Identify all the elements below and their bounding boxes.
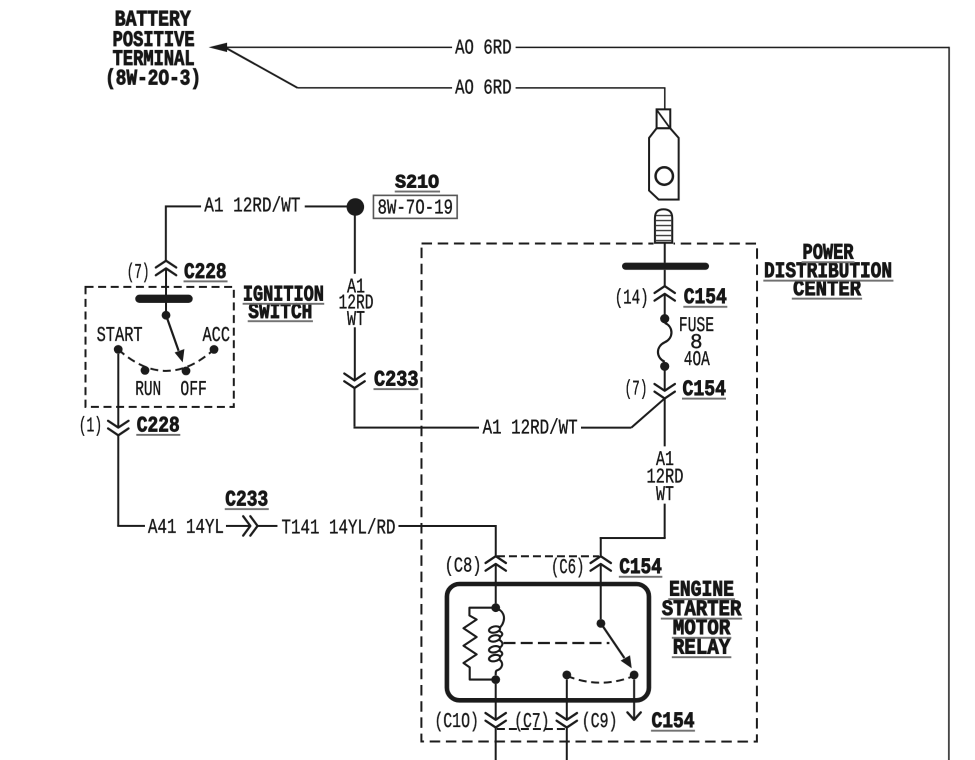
- wire from splice run to label: [353, 388, 479, 428]
- wire label A41 14YL: [148, 517, 224, 540]
- connector label C233: [373, 367, 418, 392]
- connector C154 dashed face (top): [497, 555, 599, 557]
- svg-text:(14): (14): [615, 287, 649, 310]
- connector C154 pin (C7): [557, 713, 577, 728]
- wire A1 below C154 pin 7: [664, 398, 666, 446]
- wire from ignition switch to splice S210: [166, 205, 201, 207]
- splice label S210: [395, 171, 440, 193]
- wire fuse to C154 pin 7: [664, 366, 666, 390]
- connector C233 (inline horizontal): [243, 516, 257, 535]
- connector C154 pin (14): [655, 286, 675, 301]
- wire C154 to fuse: [664, 294, 666, 315]
- connector C154 pin (7): [654, 384, 674, 399]
- svg-text:AO 6RD: AO 6RD: [455, 37, 512, 60]
- connector label C154: [682, 377, 726, 402]
- splice reference box 8W-70-19: [373, 195, 457, 220]
- svg-text:T141 14YL/RD: T141 14YL/RD: [281, 517, 395, 540]
- wire label A1 12RD/WT (middle): [483, 417, 578, 440]
- wire to relay C8: [398, 525, 495, 556]
- relay switch pivot node: [597, 619, 606, 628]
- svg-text:(C7): (C7): [514, 711, 550, 734]
- ignition switch wiper arm: [166, 315, 184, 362]
- svg-text:(7): (7): [127, 262, 150, 285]
- svg-text:(1): (1): [79, 415, 103, 438]
- wire down to C154 pin C6: [600, 504, 666, 557]
- wire corner down to C228 pin 7: [165, 205, 167, 260]
- connector C154 pin (C8): [486, 556, 506, 571]
- switch position dashed arc: [118, 349, 214, 371]
- PDC bus bar: [622, 263, 709, 270]
- svg-text:(C6): (C6): [551, 557, 585, 580]
- ignition switch contact bar: [135, 295, 193, 303]
- svg-text:AO 6RD: AO 6RD: [455, 78, 512, 101]
- arrow to battery positive terminal: [209, 43, 228, 52]
- pin label (1): [79, 415, 103, 438]
- connector label C154: [619, 555, 663, 580]
- pin label (C9): [582, 711, 618, 734]
- relay contact C9 node: [630, 671, 639, 680]
- wire from C233 to label T141: [258, 525, 278, 527]
- connector C228 pin (7): [156, 261, 176, 276]
- power distribution center label: [763, 240, 893, 302]
- coil top node: [491, 603, 500, 612]
- svg-text:RUN: RUN: [135, 379, 161, 402]
- connector label C228: [184, 260, 228, 285]
- fuse 8 element: [658, 314, 672, 371]
- wiper pivot node: [162, 311, 171, 320]
- resistor (parallel with coil): [464, 608, 492, 680]
- svg-text:WT: WT: [656, 484, 674, 507]
- wire label A0 6RD lower: [455, 78, 512, 101]
- pin label (C7): [514, 711, 550, 734]
- svg-text:(7): (7): [624, 379, 647, 402]
- connector label C154: [651, 709, 695, 734]
- wire label A1 12RD/WT (top): [204, 195, 300, 218]
- svg-text:(8W-2O-3): (8W-2O-3): [105, 66, 201, 91]
- fusible link wire boot: [654, 241, 674, 246]
- pin label (C6): [551, 557, 585, 580]
- label ACC: [203, 325, 231, 348]
- svg-text:A41 14YL: A41 14YL: [148, 517, 224, 540]
- coil actuates switch (dashed link): [504, 642, 610, 644]
- contact ACC: [210, 345, 219, 354]
- connector C154 pin (C6): [591, 556, 611, 571]
- wire bus bar to C154 pin 14: [664, 270, 666, 286]
- connector C228 pin (1): [108, 421, 128, 436]
- wire START contact down: [117, 354, 119, 428]
- engine starter motor relay label: [661, 578, 742, 661]
- wire C228 pin 1 down and right: [117, 435, 145, 526]
- pin label (14): [615, 287, 649, 310]
- splice S210: [347, 198, 365, 216]
- wire into switch bar: [165, 268, 167, 296]
- connector C154 pin (C10): [485, 713, 505, 728]
- label RUN: [135, 379, 161, 402]
- wire from boot into PDC: [664, 243, 666, 263]
- wire A0 6RD lower, to fusible link: [226, 48, 666, 109]
- wire coil bottom to C10: [495, 684, 497, 720]
- connector label C154: [683, 285, 727, 310]
- connector C154 pin (C9) arrow out: [627, 712, 640, 720]
- contact OFF: [182, 367, 191, 376]
- svg-text:A1 12RD/WT: A1 12RD/WT: [204, 195, 300, 218]
- svg-text:4OA: 4OA: [684, 349, 710, 372]
- connector C154 dashed face (bottom): [497, 728, 565, 730]
- pin label (C8): [445, 556, 482, 579]
- relay contact C7 node: [562, 671, 571, 680]
- svg-text:(C1O): (C1O): [434, 711, 479, 734]
- fuse label FUSE 8 40A: [679, 315, 715, 372]
- connector C233 (vertical): [344, 374, 364, 389]
- wire C7 out bottom: [566, 728, 568, 760]
- svg-text:(C8): (C8): [445, 556, 482, 579]
- wire segment to A1 12RD/WT label: [581, 427, 631, 429]
- label OFF: [180, 379, 207, 402]
- svg-text:8W-7O-19: 8W-7O-19: [378, 197, 454, 220]
- wire C10 out bottom: [495, 728, 497, 760]
- battery positive terminal label: [105, 7, 201, 91]
- svg-text:OFF: OFF: [180, 379, 207, 402]
- wire to C233 inline connector: [226, 525, 250, 527]
- pin label (7): [624, 379, 647, 402]
- wire label to splice dot: [305, 205, 347, 207]
- wire label A1 12RD WT (right stack): [646, 449, 683, 507]
- svg-text:WT: WT: [347, 309, 365, 332]
- label START: [97, 325, 143, 348]
- wire label A1 12RD WT (left stack): [339, 276, 374, 331]
- wire S210 down: [354, 215, 356, 273]
- relay coil: [488, 608, 504, 675]
- wire C9 contact down: [633, 679, 635, 718]
- ignition switch box: [85, 287, 233, 407]
- contact RUN: [141, 366, 150, 375]
- wire bar to wiper pivot: [165, 303, 167, 312]
- wire C6 to switch pivot: [600, 564, 602, 619]
- wire C8 into relay coil: [495, 564, 497, 604]
- connector label C233: [225, 487, 269, 512]
- svg-text:START: START: [97, 325, 143, 348]
- wire label T141 14YL/RD: [281, 517, 395, 540]
- contact START: [114, 345, 123, 354]
- wire label A0 6RD upper: [455, 37, 512, 60]
- wire A0 6RD upper, to right edge: [226, 47, 949, 760]
- svg-text:ACC: ACC: [203, 325, 231, 348]
- pin label (C10): [434, 711, 479, 734]
- dashed contact arc C7 to C9: [567, 676, 634, 683]
- fusible link eyelet terminal body: [649, 128, 679, 199]
- wire branch diagonal from C154 pin 7: [631, 398, 664, 427]
- ignition switch label: [243, 283, 325, 325]
- svg-text:(C9): (C9): [582, 711, 618, 734]
- relay switch arm with arrow: [601, 623, 632, 668]
- svg-text:S21O: S21O: [395, 171, 439, 193]
- fusible link eyelet terminal square: [657, 109, 671, 128]
- wire to connector C233: [354, 327, 356, 380]
- engine starter motor relay box: [447, 584, 649, 700]
- power distribution center box: [421, 243, 757, 741]
- connector label C228: [136, 413, 180, 438]
- wire C7 contact down: [566, 679, 568, 720]
- svg-text:A1 12RD/WT: A1 12RD/WT: [483, 417, 578, 440]
- pin label (7): [127, 262, 150, 285]
- coil bottom node: [491, 675, 500, 684]
